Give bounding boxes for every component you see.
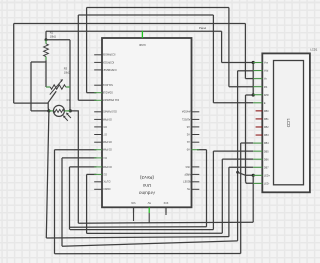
wire VDD jog to LED+	[238, 172, 254, 175]
wire net-V0 horizontal into LCD V0	[245, 78, 253, 80]
svg-text:VIN: VIN	[131, 201, 135, 205]
pin LCD R/W	[253, 94, 269, 97]
pin left D11 PWM/MOSI	[94, 98, 119, 101]
wire net-DB4 vertical x=54.5 (from Arduino D5)	[54, 150, 56, 254]
wire Arduino D3 stub	[70, 166, 97, 168]
wire net-RW-LED- vertical x=245.5	[245, 95, 247, 182]
pin left D3 PWM	[94, 165, 111, 168]
wire LED- curve into pin	[246, 182, 254, 184]
wire net-GND vertical from LDR right junction to bottom	[70, 111, 78, 223]
svg-text:ICSP/MOSI: ICSP/MOSI	[102, 53, 115, 56]
wire net-RS left vertical x=86.6	[86, 8, 88, 93]
wire net-DB6 vertical x=86.6 (from Arduino D2)	[86, 174, 88, 233]
pin LCD DB5	[253, 150, 269, 153]
svg-text:10kΩ: 10kΩ	[50, 35, 56, 39]
node junction LCD LED+	[252, 174, 255, 177]
svg-text:D3 PWM: D3 PWM	[102, 165, 112, 168]
pin left SCL/D19	[94, 83, 113, 86]
pin left D0/RX	[94, 187, 110, 190]
wire net-V0 top horizontal	[14, 23, 246, 25]
node junction LCD VSS	[252, 61, 255, 64]
pin LCD DB7	[253, 166, 269, 169]
wire net-GND vertical x=221.6 to LCD VSS	[221, 31, 223, 62]
pin LCD RS	[253, 86, 267, 89]
svg-text:DB3: DB3	[264, 134, 269, 137]
svg-text:D11 PWM/MOSI: D11 PWM/MOSI	[101, 98, 119, 101]
wire net-E stub into Arduino pin D11	[78, 99, 96, 101]
wire net-RS right vertical x=228.9	[228, 8, 230, 87]
LDR light arrows	[64, 117, 68, 121]
wire net-DB6 horizontal into LCD	[222, 158, 253, 160]
pin left D10 PWM/SS	[94, 110, 116, 113]
wire Arduino D5 stub	[55, 149, 97, 151]
svg-text:DB4: DB4	[264, 142, 269, 145]
svg-text:DB6: DB6	[264, 158, 269, 161]
pin LCD DB0	[256, 110, 270, 113]
wire net-RS horizontal into LCD RS	[229, 86, 253, 88]
wire net-RS top horizontal from D-pin column to x=229	[87, 7, 229, 9]
svg-text:D6 PWM: D6 PWM	[102, 140, 112, 143]
wire net-DB7 right vertical x=228.9	[228, 167, 230, 237]
wire pot wiper diagonal down to LDR-left junction	[48, 91, 56, 111]
svg-text:D5 PWM: D5 PWM	[102, 148, 112, 151]
wire net-VDD vertical x=237.6	[237, 71, 239, 241]
pin LCD E	[253, 102, 266, 105]
svg-text:3V3: 3V3	[185, 165, 190, 168]
pin left D9 PWM	[94, 117, 111, 120]
pin right 3V3	[185, 165, 199, 168]
svg-text:D1/TX: D1/TX	[103, 180, 110, 183]
pin right A5/SCL	[181, 117, 199, 120]
pin right A3	[186, 125, 199, 128]
wire R2 bottom to pot left pin	[45, 60, 47, 87]
svg-text:R3: R3	[64, 67, 68, 71]
wire GND vertical x=70 down to pot right / LDR right	[69, 40, 71, 111]
wire bottom VDD-D4 horizontal	[62, 241, 238, 246]
GND pin stub top	[141, 31, 143, 38]
svg-text:LED+: LED+	[264, 174, 271, 177]
pin LCD LED+	[253, 174, 270, 177]
node junction R2 top	[45, 31, 47, 40]
wire VSS to RW bus vertical x=253.2	[252, 63, 254, 96]
svg-text:SDA/D18: SDA/D18	[102, 91, 113, 94]
pin left D4	[94, 156, 106, 159]
wire bottom A0 horizontal	[70, 226, 207, 228]
pin right A4/SDA	[181, 110, 199, 113]
wire net-A0 stub from Arduino right pin	[197, 149, 207, 151]
pin left D6 PWM	[94, 140, 111, 143]
wire net-DB6 right vertical x=222.3	[221, 159, 223, 233]
pin LCD DB6	[253, 158, 269, 161]
svg-text:LED-: LED-	[264, 183, 270, 186]
svg-text:AREF: AREF	[184, 172, 191, 175]
svg-text:3V3: 3V3	[163, 201, 168, 205]
photoresistor R1 (LDR)	[49, 105, 71, 120]
wire Arduino D2 stub	[87, 173, 97, 175]
pin bottom 5V	[147, 201, 150, 223]
pin right RESET	[183, 180, 200, 183]
wire net-DB4 horizontal into LCD	[241, 142, 254, 144]
wire net-GND horizontal into LCD VSS	[222, 62, 254, 64]
pin LCD Vss	[253, 62, 269, 65]
pin LCD DB2	[256, 126, 270, 129]
node junction LDR left / wiper / A0 net	[47, 109, 50, 112]
svg-text:D0/RX: D0/RX	[103, 187, 111, 190]
pin LCD DB3	[256, 134, 270, 137]
svg-text:D9 PWM: D9 PWM	[102, 117, 112, 120]
wire net-RW-LED- left jog	[246, 94, 254, 96]
pot arrow	[50, 80, 63, 95]
svg-text:5V: 5V	[186, 187, 189, 190]
svg-text:D10 PWM/SS: D10 PWM/SS	[101, 110, 116, 113]
wire bottom DB6 horizontal	[87, 232, 223, 234]
pin LCD Vo	[253, 78, 267, 81]
pin right A1	[186, 140, 199, 143]
svg-text:A4/SDA: A4/SDA	[181, 110, 190, 113]
svg-text:SCL/D19: SCL/D19	[102, 83, 113, 86]
pin left ICSP/SCK	[94, 60, 114, 63]
wire net-E right vertical x=213.4	[212, 15, 214, 103]
pin right A2	[186, 132, 199, 135]
wire net-E left vertical x=78.3	[77, 15, 79, 100]
wire bottom LED+ horizontal	[78, 222, 253, 223]
svg-text:RESET: RESET	[183, 180, 192, 183]
label R3 value	[64, 67, 70, 75]
pin LCD DB4	[253, 142, 269, 145]
microcontroller U1 Arduino Uno (Rev3)	[102, 31, 192, 208]
pin left ICSP/RESET	[94, 68, 116, 71]
svg-text:DB2: DB2	[264, 126, 269, 129]
wire net-DB5 right vertical x=213.4 (lower)	[212, 151, 214, 230]
wire bottom DB5 horizontal	[70, 229, 213, 231]
pin right A0	[186, 148, 199, 151]
svg-text:DB5: DB5	[264, 150, 269, 153]
svg-text:(Rev3): (Rev3)	[140, 175, 155, 180]
pin LCD Vdd	[253, 70, 269, 73]
wire net-V0 right vertical x=245.4	[244, 24, 246, 79]
wire net-VDD horizontal from LCD VDD	[238, 70, 254, 72]
svg-text:Uno: Uno	[142, 183, 151, 188]
svg-text:5V: 5V	[147, 201, 150, 205]
wire bottom DB4 horizontal	[55, 253, 241, 255]
svg-text:Panel: Panel	[199, 26, 207, 30]
wire vertical x=31 down to LDR row	[30, 62, 32, 111]
node junction LCD RW	[252, 93, 255, 96]
resistor R2 10k vertical	[44, 40, 49, 60]
potentiometer R3 10k	[46, 79, 70, 94]
svg-text:DB1: DB1	[264, 118, 269, 121]
svg-text:RS: RS	[264, 86, 268, 89]
label R2 value	[50, 31, 56, 39]
wire GND jog right from R2 top	[46, 39, 70, 41]
wire net-V0 horizontal to pot wiper	[14, 102, 48, 104]
wire net-DB5 horizontal into LCD	[213, 150, 253, 152]
wire net-E horizontal into LCD E	[213, 102, 253, 104]
pin bottom 3V3	[163, 201, 168, 215]
pin right AREF	[184, 172, 199, 175]
pin left D2	[94, 172, 106, 175]
wire bottom DB7 horizontal	[46, 237, 229, 238]
node junction LDR right / GND	[69, 109, 72, 112]
wire net-VDD-D4 vertical x=62 (from Arduino D4)	[61, 158, 63, 246]
display LCD1 HD44780	[262, 53, 310, 192]
wire net-DB4 right vertical x=240.7	[240, 143, 242, 254]
wire net-A0 right vertical x=206.5	[206, 150, 208, 227]
svg-text:DB7: DB7	[264, 166, 269, 169]
svg-text:Arduino: Arduino	[139, 191, 156, 196]
pin left SDA/D18	[94, 91, 113, 94]
wire Arduino D4 stub	[62, 157, 96, 159]
pin right 5V	[186, 187, 199, 190]
wire net-DB7 horizontal into LCD	[229, 166, 253, 168]
wire horizontal into LDR left junction	[31, 110, 49, 112]
svg-text:LCD: LCD	[286, 119, 291, 128]
svg-text:DB0: DB0	[264, 110, 269, 113]
svg-text:10kΩ: 10kΩ	[64, 70, 70, 74]
pin left D7	[94, 132, 106, 135]
wire net-RS stub into Arduino pin SDA/D18	[87, 92, 97, 94]
svg-text:ICSP/RESET: ICSP/RESET	[102, 68, 117, 71]
pin bottom VIN	[131, 201, 135, 221]
node junction VDD/LED+ branch	[236, 171, 239, 174]
wire net-V0 left vertical x=13.7	[13, 24, 15, 104]
wire net-DB7 vertical from LDR junction down	[46, 111, 49, 238]
svg-text:GND: GND	[138, 43, 146, 47]
wire net-GND top horizontal (R2 top to LCD VSS column)	[46, 30, 222, 32]
svg-text:ICSP/SCK: ICSP/SCK	[102, 60, 114, 63]
pin left ICSP/MOSI	[94, 53, 115, 56]
svg-text:R2: R2	[50, 31, 54, 35]
wire LED+ vertical down x=253.2	[252, 175, 254, 222]
pin left D1/TX	[94, 180, 110, 183]
pin left D5 PWM	[94, 148, 111, 151]
wire branch from R2 bottom leftwards	[31, 61, 46, 63]
svg-text:LCD1: LCD1	[310, 47, 318, 51]
pin LCD DB1	[256, 118, 270, 121]
wire net-A0 vertical x=69.5 (from Arduino D3)	[69, 167, 71, 230]
svg-text:Vdd: Vdd	[264, 70, 269, 73]
svg-text:A5/SCL: A5/SCL	[181, 117, 190, 120]
wire net-E top horizontal	[78, 14, 213, 16]
svg-text:R/W: R/W	[264, 94, 269, 97]
pin LCD LED-	[253, 183, 269, 186]
pin left D8	[94, 125, 106, 128]
